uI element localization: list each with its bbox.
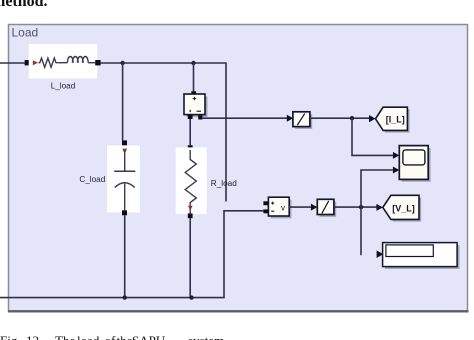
- wire: current sensor to R_load: [189, 119, 191, 145]
- port square L_load left: [25, 60, 30, 65]
- arrowhead into saturation S2: [311, 204, 317, 211]
- plus mark: [193, 97, 196, 100]
- port square current sensor top: [191, 91, 196, 95]
- wire: R_load bottom to ground rail: [189, 218, 191, 297]
- red direction arrow: [122, 149, 127, 154]
- wire: C_load bottom to ground rail: [124, 215, 126, 297]
- wire: branch down toward display: [360, 207, 362, 255]
- goto tag V_L: [383, 195, 421, 221]
- port square C_load top: [122, 140, 127, 145]
- port square C_load bottom: [122, 210, 127, 215]
- node: rail junction under C_load: [123, 295, 127, 299]
- arrowhead into goto I_L: [369, 115, 375, 122]
- port square voltage sensor plus: [263, 201, 268, 205]
- wire: down to current sensor: [193, 63, 195, 91]
- plus mark: [271, 202, 274, 205]
- arrowhead into scope input 1: [393, 152, 399, 159]
- svg-text:C_load: C_load: [79, 175, 105, 184]
- subsystem box bottom shadow border: [8, 310, 469, 312]
- wire: saturation S1 to goto tag I_L with branch node: [310, 117, 370, 119]
- node: branch to scope input 2 and display: [359, 205, 363, 209]
- scope block: [399, 146, 430, 182]
- wire: ground rail from left edge, up to voltage sensor minus port: [0, 211, 263, 298]
- capacitor C_load: [107, 145, 140, 212]
- wire: down to C_load: [122, 63, 124, 140]
- svg-text:Load: Load: [12, 26, 39, 40]
- svg-text:v: v: [281, 203, 285, 212]
- red direction arrow: [33, 60, 38, 65]
- saturation block S2: [317, 199, 336, 217]
- resistor zigzag part: [39, 58, 58, 67]
- port square current sensor bottom: [188, 115, 193, 119]
- voltage sensor block (Voltage Measurement): [268, 197, 291, 218]
- port square current sensor signal out: [198, 115, 202, 119]
- node: rail junction under R_load: [189, 295, 193, 299]
- arrowhead into goto V_L: [376, 204, 382, 211]
- wire: top rail from L_load to right corner, down to dangling end: [101, 63, 226, 202]
- svg-text:[I_L]: [I_L]: [386, 115, 405, 125]
- port square voltage sensor minus: [263, 209, 268, 213]
- wire: branch up to scope input 2: [361, 170, 393, 207]
- arrowhead into display: [377, 250, 384, 258]
- red direction arrow: [188, 206, 193, 211]
- saturation block S1: [293, 112, 312, 129]
- svg-text:R_load: R_load: [211, 179, 237, 188]
- display block: [383, 243, 460, 269]
- connecting wire: [57, 62, 67, 64]
- svg-text:[V_L]: [V_L]: [392, 204, 415, 214]
- wire: branch down to scope input 1: [352, 118, 393, 155]
- wire: voltage sensor out to saturation S2: [289, 206, 311, 208]
- inductor coils: [67, 57, 88, 63]
- top cropped paragraph text "method.": [0, 0, 48, 11]
- wire: left input stub to L_load: [0, 62, 25, 64]
- port square R_load bottom: [188, 213, 193, 218]
- node: junction above current sensor: [191, 61, 195, 65]
- goto tag I_L: [376, 107, 410, 132]
- arrowhead into saturation S1: [287, 115, 293, 122]
- port square L_load right: [95, 60, 100, 65]
- i label marks: [189, 110, 191, 112]
- minus mark: [271, 210, 274, 212]
- inductor block L_load (series RL branch icon): [29, 44, 98, 79]
- arrowhead into scope input 2: [393, 167, 399, 174]
- wire: current signal to saturation: [202, 117, 287, 119]
- node: junction above C_load: [120, 61, 124, 65]
- node: branch to scope input 1: [350, 116, 354, 120]
- port square R_load top: [188, 145, 193, 150]
- current sensor block (Current Measurement): [184, 94, 208, 117]
- figure caption (cropped at bottom): [0, 332, 1, 334]
- resistor R_load: [176, 147, 207, 214]
- svg-text:L_load: L_load: [51, 82, 76, 91]
- capacitor top plate: [114, 170, 135, 172]
- wire: saturation S2 to goto tag V_L with branch node: [334, 206, 377, 208]
- capacitor curved bottom plate: [115, 183, 135, 188]
